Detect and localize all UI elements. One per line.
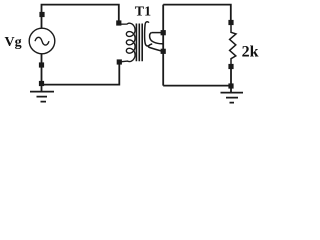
ground symbol right (0 node) xyxy=(221,93,244,103)
wire left loop bottom-left vertical (Vg bottom to ground node) xyxy=(41,54,43,91)
junction dot resistor bottom terminal xyxy=(228,64,233,69)
wire left loop top segment (Vg top to T1 primary) xyxy=(42,5,119,29)
ground symbol left (0 node) xyxy=(30,92,54,102)
voltage source Vg circle xyxy=(29,28,55,54)
junction dot Vg top terminal xyxy=(39,12,44,17)
wire right loop bottom segment xyxy=(163,85,231,87)
wire right loop top segment xyxy=(163,5,231,23)
resistor R 2k zigzag xyxy=(230,23,236,67)
transformer T1 secondary winding outer arc xyxy=(145,22,149,46)
svg-text:Vg: Vg xyxy=(5,35,22,50)
svg-text:T1: T1 xyxy=(135,4,151,19)
junction dot T1 secondary top pin xyxy=(161,30,166,35)
transformer T1 secondary winding inner strand and upper arm xyxy=(150,33,164,45)
transformer T1 core lines xyxy=(136,24,142,62)
junction dot Vg bottom terminal xyxy=(39,62,44,67)
wire right loop left vertical (secondary bus) xyxy=(162,5,164,86)
wire left loop bottom segment (ground node to T1 primary bottom) xyxy=(42,62,120,85)
sine wave inside Vg xyxy=(35,37,49,45)
junction dot T1 primary bottom pin xyxy=(117,59,122,64)
junction dot T1 primary top pin xyxy=(116,20,121,25)
transformer T1 secondary winding bottom lead sweep xyxy=(148,46,163,52)
transformer T1 secondary winding vertex rise stub xyxy=(148,44,152,46)
junction dot resistor top terminal xyxy=(228,20,233,25)
junction dot T1 secondary bottom pin xyxy=(161,49,166,54)
junction dot right ground node xyxy=(228,83,233,88)
transformer T1 primary winding coil xyxy=(119,23,135,62)
junction dot left ground node xyxy=(39,81,44,86)
svg-text:2k: 2k xyxy=(242,43,259,60)
wire resistor bottom to ground node xyxy=(230,67,232,93)
transformer T1 secondary winding top lead xyxy=(152,32,164,34)
